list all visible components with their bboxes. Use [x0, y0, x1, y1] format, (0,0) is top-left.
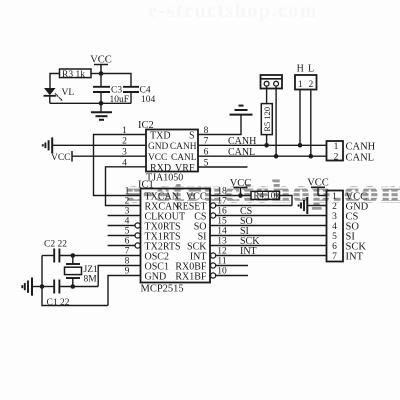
- svg-text:C3: C3: [111, 86, 122, 96]
- power VCC top-left: [94, 65, 108, 74]
- wire CS net: [216, 215, 327, 217]
- svg-text:CANL: CANL: [171, 153, 197, 163]
- wire pin18 VCC: [210, 195, 251, 197]
- capacitor C3: [93, 74, 110, 104]
- svg-text:2: 2: [334, 153, 339, 163]
- svg-text:VCC: VCC: [90, 55, 112, 66]
- ground sideways at connector pin2: [299, 197, 308, 214]
- ground sideways left of IC2: [43, 137, 52, 153]
- pin10 RX1BF circle: [211, 273, 216, 278]
- capacitor C2: [54, 249, 59, 263]
- wire INT net: [216, 255, 327, 257]
- svg-text:4: 4: [332, 222, 337, 232]
- resistor R4: [251, 191, 280, 199]
- wire CANL net: [198, 155, 327, 157]
- svg-text:TXD: TXD: [150, 131, 171, 142]
- node L/CANL: [309, 154, 314, 159]
- wire RXD to RXCAN: [106, 167, 147, 206]
- svg-text:CANH: CANH: [346, 142, 376, 153]
- power VCC above connector: [311, 187, 325, 195]
- wire R3 left to LED: [50, 74, 60, 89]
- ground below C3: [91, 103, 112, 120]
- svg-text:GND: GND: [145, 271, 167, 282]
- svg-text:L: L: [308, 64, 314, 75]
- svg-text:VL: VL: [62, 88, 75, 98]
- svg-text:VCC: VCC: [148, 153, 167, 163]
- wire pin3 CLKOUT stub: [108, 215, 141, 217]
- svg-text:VCC: VCC: [307, 178, 329, 189]
- svg-text:JZ1: JZ1: [84, 265, 99, 275]
- svg-text:104: 104: [141, 95, 156, 105]
- wire top rail to OSC2: [42, 255, 54, 257]
- svg-text:1: 1: [332, 192, 337, 202]
- capacitor C4: [123, 87, 139, 104]
- node junction VCC/R3/C3: [99, 71, 104, 76]
- svg-text:C4: C4: [140, 86, 151, 96]
- svg-text:6: 6: [332, 242, 337, 252]
- crystal JZ1: [65, 256, 82, 287]
- wire pin17 RESET: [216, 205, 292, 207]
- wire SI net: [210, 235, 327, 237]
- svg-text:MCP2515: MCP2515: [141, 284, 184, 295]
- wire pin4 TX0RTS: [108, 225, 135, 227]
- IC2 body: [146, 130, 198, 172]
- wire jumper right to CANL: [275, 86, 277, 156]
- svg-text:H: H: [297, 64, 304, 75]
- svg-text:S: S: [189, 131, 195, 142]
- wire TXD to TXCAN: [94, 135, 147, 196]
- pin17 RESET circle: [211, 203, 216, 208]
- jumper JP1: [261, 75, 283, 89]
- wire mid rail: [42, 286, 54, 288]
- svg-text:7: 7: [332, 252, 337, 262]
- svg-text:VCC: VCC: [230, 178, 252, 189]
- node R5/CANH: [264, 143, 269, 148]
- svg-text:CANH: CANH: [228, 136, 256, 147]
- wire pin8 S to ground: [198, 115, 241, 135]
- svg-text:C1 22: C1 22: [47, 298, 70, 308]
- capacitor C1: [54, 280, 59, 294]
- pin16 CS circle: [211, 213, 216, 218]
- wire SO net: [210, 225, 327, 227]
- svg-text:CANL: CANL: [228, 147, 255, 158]
- power VCC above R4: [234, 188, 248, 196]
- svg-text:R3 1k: R3 1k: [62, 70, 85, 80]
- svg-text:1: 1: [125, 187, 130, 197]
- wire VCC to connector pin1: [318, 195, 327, 197]
- svg-text:C2 22: C2 22: [44, 240, 67, 250]
- wire R4 to RESET: [280, 196, 293, 206]
- pin12 INT circle: [211, 253, 216, 258]
- svg-text:VCC: VCC: [51, 153, 71, 163]
- wire L to CANL: [310, 90, 312, 157]
- svg-text:2: 2: [125, 197, 130, 207]
- svg-text:8M: 8M: [84, 274, 98, 284]
- svg-text:RX1BF: RX1BF: [175, 271, 207, 282]
- wire pin10 stub: [216, 275, 248, 277]
- wire VCC node to C4 top: [101, 74, 131, 87]
- wire pin5 VRF stub: [198, 166, 248, 168]
- wire CANH net: [198, 144, 327, 146]
- node H/CANH: [298, 143, 303, 148]
- svg-text:R4 10k: R4 10k: [254, 191, 281, 201]
- wire pin6 TX2RTS: [108, 245, 135, 247]
- node junction bottom C3: [99, 101, 104, 106]
- svg-text:1: 1: [334, 142, 339, 152]
- svg-text:e-structshop.com: e-structshop.com: [148, 0, 318, 22]
- svg-text:5: 5: [332, 232, 337, 242]
- svg-text:1: 1: [298, 80, 303, 90]
- node jumper/CANL: [274, 154, 279, 159]
- wire pin7 OSC2 to crystal: [59, 255, 140, 257]
- wire R5 to CANH: [266, 135, 268, 146]
- svg-text:GND: GND: [148, 142, 169, 152]
- resistor R3: [60, 69, 92, 78]
- svg-text:3: 3: [332, 212, 337, 222]
- left rail wire: [42, 256, 108, 306]
- svg-text:CANL: CANL: [346, 152, 375, 163]
- wire R3 to VCC node: [91, 73, 101, 75]
- svg-text:INT: INT: [240, 246, 257, 257]
- IC1 body: [141, 189, 211, 283]
- svg-text:R5 120: R5 120: [262, 107, 272, 132]
- connector J2 CANH CANL: [327, 141, 344, 161]
- wire pin9 GND jog down: [108, 276, 141, 306]
- connector J1 SPI: [327, 191, 344, 262]
- svg-text:2: 2: [309, 80, 314, 90]
- wire pin8 OSC1 jog down: [98, 266, 140, 287]
- node ground rail: [40, 284, 45, 289]
- ground above pin8: [230, 106, 253, 115]
- svg-text:10uF: 10uF: [110, 95, 130, 105]
- wire bottom rail LED to C4: [50, 102, 131, 104]
- resistor R5 120: [261, 104, 272, 135]
- node pin18/VCC: [238, 193, 243, 198]
- svg-text:INT: INT: [346, 252, 364, 263]
- wire pin11 stub: [216, 265, 248, 267]
- svg-text:CANH: CANH: [170, 142, 197, 152]
- net VCC label pin3: [71, 151, 73, 162]
- wire H to CANH: [299, 90, 301, 146]
- node crystal bottom: [71, 284, 76, 289]
- wire pin5 TX1RTS: [108, 235, 135, 237]
- wire SCK net: [210, 245, 327, 247]
- node crystal top: [71, 253, 76, 258]
- LED VL: [44, 88, 63, 103]
- wire jumper left to R5: [266, 86, 268, 104]
- header H L: [295, 75, 317, 90]
- pin11 RX0BF circle: [211, 263, 216, 268]
- ground sideways crystal: [22, 278, 42, 296]
- svg-text:2: 2: [332, 202, 337, 212]
- wire ground to connector pin2: [307, 205, 326, 207]
- wire GND pin2: [53, 144, 147, 146]
